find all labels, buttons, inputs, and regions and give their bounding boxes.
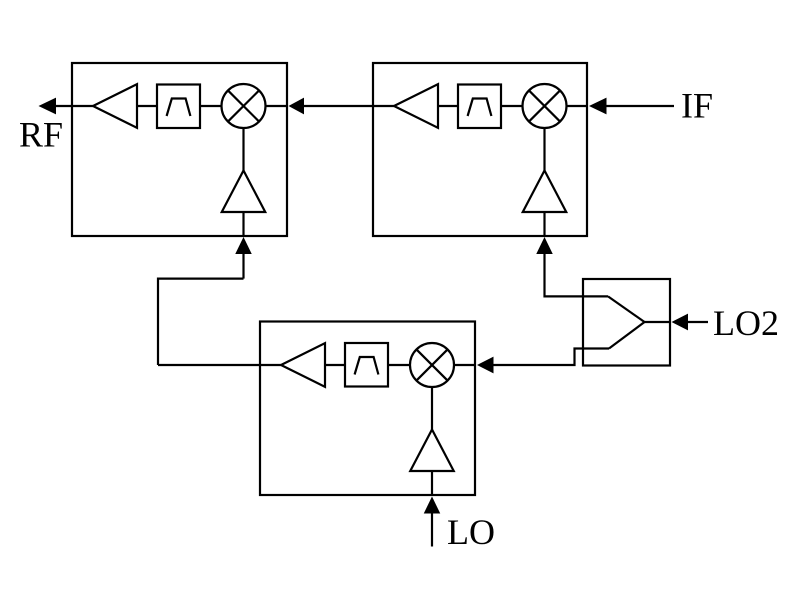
wire RF output — [55, 105, 93, 107]
wire M1 to block1 right edge — [266, 105, 288, 107]
amplifier A2 — [394, 84, 438, 128]
wire FL2 to M2 — [501, 105, 523, 107]
arrowhead LO2 into block 2 — [536, 237, 553, 254]
wire block3 output riser to block1 — [158, 279, 244, 365]
block 1 enclosure (RF upconverter module) — [72, 63, 287, 236]
mixer M1 — [222, 84, 266, 128]
wire M3 to block3 right edge — [454, 364, 475, 366]
arrowhead RF output — [39, 98, 57, 115]
bandpass filter FL3 — [345, 343, 388, 387]
wire M2 to block2 right edge — [567, 105, 588, 107]
arrowhead IF input — [589, 98, 607, 115]
bandpass filter FL2 — [458, 85, 501, 129]
wire FL1 to M1 — [200, 105, 222, 107]
wire LO input — [431, 506, 433, 547]
wire block3 output — [158, 364, 281, 366]
splitter U1 divider symbol — [608, 296, 670, 348]
wire LO2 input — [687, 321, 708, 323]
wire M3 to LO amplifier A6 — [431, 387, 433, 430]
amplifier A5 (LO buffer block 2) — [523, 171, 567, 213]
wire A6 to block3 bottom edge — [431, 471, 433, 495]
arrowhead LO into block 1 — [235, 237, 252, 254]
wire splitter lower branch with jog — [493, 349, 609, 366]
bandpass filter FL1 — [157, 85, 200, 129]
svg-text:LO2: LO2 — [713, 303, 779, 343]
svg-text:LO: LO — [447, 512, 495, 552]
arrowhead into block 3 — [477, 357, 494, 374]
arrowhead LO into block 3 — [424, 497, 441, 514]
wire IF input — [606, 105, 675, 107]
wire M2 to LO amplifier A5 — [543, 128, 545, 171]
wire A3 to FL3 — [325, 364, 345, 366]
wire M1 to LO amplifier A4 — [242, 128, 244, 171]
wire FL3 to M3 — [388, 364, 410, 366]
arrowhead into block 1 from block 2 — [289, 98, 305, 115]
svg-text:RF: RF — [19, 115, 63, 155]
amplifier A4 (LO buffer block 1) — [222, 171, 266, 213]
wire A2 to FL2 — [438, 105, 458, 107]
block 3 enclosure (LO multiplier module) — [260, 322, 475, 496]
wire A4 to block1 bottom edge — [242, 212, 244, 236]
wire riser from splitter to block 2 — [545, 247, 609, 296]
amplifier A6 (LO buffer block 3) — [410, 430, 454, 472]
block 2 enclosure (IF upconverter module) — [373, 63, 587, 236]
wire block2 to block1 — [303, 105, 394, 107]
wire A1 to FL1 — [137, 105, 157, 107]
mixer M3 — [410, 343, 454, 387]
amplifier A3 — [281, 343, 325, 387]
arrowhead LO2 input — [672, 314, 689, 331]
mixer M2 — [523, 84, 567, 128]
wire LO riser to block 1 — [242, 247, 244, 279]
amplifier A1 — [93, 84, 137, 128]
svg-text:IF: IF — [681, 86, 713, 126]
wire A5 to block2 bottom edge — [543, 212, 545, 236]
splitter U1 enclosure — [583, 279, 670, 366]
